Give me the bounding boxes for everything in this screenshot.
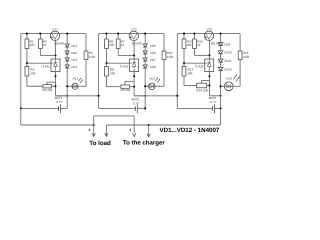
wire TL431 anode to bottom rail [209,72,211,96]
svg-text:1k: 1k [43,43,47,47]
LED HL3 [221,85,234,87]
wire VT3 base lead [209,40,211,55]
svg-text:3,7V: 3,7V [210,100,217,104]
resistor R3 [26,63,28,66]
junction trimmer wiper on anode line [209,75,211,77]
svg-text:R4 20k: R4 20k [42,88,52,92]
wire cell3 negative riser [220,96,222,109]
svg-text:20k: 20k [186,43,192,47]
svg-text:VT1: VT1 [52,27,58,31]
junction R7 top [117,33,119,35]
junction pack- charger terminal [148,124,150,126]
diode VD5 1N4007 [143,44,147,47]
junction diode chain top [220,33,222,35]
svg-text:3.6R: 3.6R [89,55,96,59]
wire TL431 ref line from R3 [27,62,51,64]
diode VD2 1N4007 [65,51,69,54]
svg-text:VD7: VD7 [150,58,156,62]
resistor R11 [183,34,185,39]
junction ref node [105,62,107,64]
svg-text:TL431: TL431 [195,64,204,68]
junction pack+ at load terminal [93,124,95,126]
block 2: top rail (cell2+) [99,33,164,35]
junction battery BAT3 negative [220,107,222,109]
resistor R13 [183,63,185,66]
resistor R10 330R on right edge [163,34,165,51]
wire pack- from battery3 down [220,108,222,125]
wire pack+ riser [93,116,95,125]
diode VD9 1N4007 [218,43,223,46]
junction pack+ at battery1 [20,107,22,109]
terminal load + arrow [93,125,95,136]
wire pack+ upper line to charger terminal [94,115,135,117]
wire TL431 anode to bottom rail [133,72,135,96]
junction diode chain top [144,33,146,35]
junction battery BAT2 negative [144,107,146,109]
block 1: top rail (cell1+) [21,33,86,35]
resistor R6 [106,34,108,39]
svg-text:VD10: VD10 [224,51,232,55]
wire R8 bottom to trimmer [106,86,108,87]
svg-text:3,7V: 3,7V [133,102,140,106]
trimmer resistor R14 20k [197,83,207,88]
svg-text:20k: 20k [187,72,193,76]
junction R2 top [39,33,41,35]
diode VD8 1N4007 [143,65,147,68]
wire R12 to base node [195,54,210,56]
svg-text:HL1: HL1 [73,77,79,81]
svg-text:20k: 20k [29,43,35,47]
wire R13 bottom to trimmer [183,85,185,87]
svg-text:3.6R: 3.6R [243,55,250,59]
LED HL2 [145,85,155,87]
block 3: left bus wire [176,34,178,109]
svg-text:VD3: VD3 [71,58,77,62]
svg-text:To the charger: To the charger [123,140,166,147]
wire R7 to base node [118,54,134,56]
wire VT1 base lead [55,40,57,55]
diode VD10 1N4007 [218,51,223,54]
resistor R8 [106,63,108,66]
transistor VT3 BD140 [204,31,213,40]
svg-text:R9 20k: R9 20k [120,88,130,92]
terminal charger + arrow [133,133,136,136]
block 1: left bus wire [20,34,22,109]
wire diode chain from rail [144,34,146,44]
junction base node [133,54,135,56]
wire pack- bottom rail [106,124,220,126]
resistor R15 330R on right edge [239,34,241,51]
block 3: top rail (cell3+) [177,33,240,35]
junction R6 top [105,33,107,35]
svg-text:TL431: TL431 [41,64,50,68]
junction base node [54,54,56,56]
wire diode chain to bottom junction [220,70,222,95]
svg-text:VD1: VD1 [71,44,77,48]
wire diode chain to bottom junction [66,68,68,96]
junction ref node [183,62,185,64]
diode VD12 1N4007 [218,67,223,70]
shunt regulator U2 TL431 [133,55,135,59]
wire TL431 ref line from R8 [107,62,130,64]
wire R3 bottom to trimmer [26,85,28,88]
wire R2 to base node [40,54,55,56]
svg-text:VD8: VD8 [150,65,156,69]
wire TL431 ref line from R13 [184,62,205,64]
LED HL1 [67,85,78,87]
wire pack+ down from bus1 [20,108,22,125]
battery BAT2 3,7V [99,107,136,109]
wire cell1- to block2 bus [56,95,99,97]
svg-text:VT2: VT2 [131,27,137,31]
node cell1 bottom rail [56,95,68,97]
junction R12 top [193,33,195,35]
svg-text:+: + [88,128,91,133]
svg-text:VD9: VD9 [224,42,230,46]
svg-text:VD6: VD6 [150,51,156,55]
wire TL431 anode to bottom rail [55,72,57,96]
svg-text:HL3: HL3 [226,77,232,81]
wire VT2 base lead [133,40,135,55]
svg-text:VD1...VD12 - 1N4007: VD1...VD12 - 1N4007 [160,127,220,134]
junction diode chain bottom [66,95,68,97]
wire diode chain to bottom junction [144,68,146,96]
svg-text:1k: 1k [121,43,125,47]
LED HL3 emission arrows [233,75,237,80]
svg-text:VD11: VD11 [224,59,232,63]
svg-text:BD140: BD140 [132,41,142,45]
trimmer resistor R4 20k [43,85,52,88]
junction diode chain bottom [144,95,146,97]
LED HL1 emission arrows [78,78,81,81]
svg-text:3,7V: 3,7V [56,100,63,104]
wire cell2- to block3 bus [134,95,177,97]
diode VD1 1N4007 [65,44,69,47]
junction base node [208,54,210,56]
trimmer resistor R9 20k [121,85,129,88]
resistor R5 330R on right edge [85,34,87,51]
svg-text:VD5: VD5 [150,44,156,48]
svg-text:VT3: VT3 [206,27,212,31]
LED HL2 emission arrows [155,78,158,82]
terminal load - arrow [105,125,107,136]
wire cell2 negative riser [144,96,146,109]
battery BAT1 3,7V [21,107,59,109]
battery BAT3 3,7V [177,107,212,109]
svg-text:20k: 20k [29,72,35,76]
resistor R7 [117,34,119,39]
node cell2 bottom rail [134,95,145,97]
shunt regulator U1 TL431 [55,55,57,59]
svg-text:+: + [129,128,132,133]
diode VD7 1N4007 [143,58,147,61]
wire diode chain from rail [220,34,222,43]
junction R1 top [26,33,28,35]
resistor R1 [26,34,28,39]
transistor VT1 BD140 [50,31,59,40]
svg-text:VD4: VD4 [71,65,77,69]
svg-text:R14 20k: R14 20k [196,89,208,93]
wire cell1 negative riser [66,96,68,109]
diode VD4 1N4007 [65,65,69,68]
shunt regulator U3 TL431 [209,55,211,59]
resistor R12 [194,34,196,39]
wire pack+ to load terminal [21,124,94,126]
svg-text:20k: 20k [109,72,115,76]
svg-text:VD2: VD2 [71,51,77,55]
junction trimmer wiper on anode line [133,75,135,77]
svg-text:TL431: TL431 [119,64,128,68]
transistor VT2 BD140 [129,31,138,40]
svg-text:VD12: VD12 [224,67,232,71]
diode VD6 1N4007 [143,51,147,54]
svg-text:3.6R: 3.6R [167,55,174,59]
terminal charger - arrow [148,125,150,137]
resistor R2 [39,34,41,39]
block 2: left bus wire [98,34,100,109]
svg-text:20k: 20k [108,43,114,47]
node cell3 bottom rail [210,95,221,97]
junction trimmer wiper on anode line [55,75,57,77]
junction ref node [26,62,28,64]
svg-text:To load: To load [89,140,111,147]
junction R11 top [183,33,185,35]
junction diode chain top [66,33,68,35]
diode VD11 1N4007 [218,59,223,62]
diode VD3 1N4007 [65,58,69,61]
svg-text:1k: 1k [197,43,201,47]
svg-text:HL2: HL2 [149,77,155,81]
junction diode chain bottom [220,95,222,97]
wire diode chain from rail [66,34,68,44]
